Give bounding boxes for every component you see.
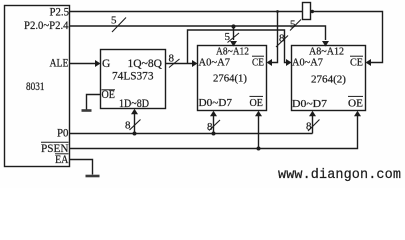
- slash bus width 8 at D0-D7 2764(2): [308, 120, 320, 132]
- svg-text:ALE: ALE: [50, 58, 69, 70]
- arrowhead into A8-A12 2764(1): [230, 41, 237, 47]
- slash bus width 5 at 2764(1): [228, 33, 240, 43]
- EPROM 2764(1) box: [198, 46, 267, 111]
- MCU 8031 box: [5, 6, 70, 167]
- wire A8 feed 2764(1): [233, 26, 235, 40]
- svg-text:OE: OE: [102, 89, 116, 101]
- overline EA: [55, 153, 69, 155]
- wire P0 to D0-D7 2764(1): [213, 116, 215, 134]
- svg-text:OE: OE: [348, 99, 363, 110]
- wire P2.5: [70, 11, 303, 13]
- wire inverter output to CE2: [314, 12, 383, 63]
- inverter G1 box: [303, 3, 311, 20]
- svg-text:8: 8: [207, 121, 213, 133]
- wire A0-A7 riser to 2764(2): [188, 30, 287, 64]
- svg-text:8: 8: [125, 120, 131, 132]
- wire ALE to G: [70, 63, 96, 65]
- slash bus width 8 on riser: [276, 36, 288, 48]
- wire EA to ground: [70, 160, 93, 175]
- junction dot P2.5 to CE1: [276, 10, 279, 13]
- svg-text:2764(2): 2764(2): [311, 75, 347, 86]
- svg-text:A0~A7: A0~A7: [292, 58, 323, 69]
- arrowhead into CE1: [267, 59, 273, 66]
- overline CE 2764(1): [252, 55, 264, 57]
- latch 74LS373 box: [101, 50, 166, 109]
- svg-text:1Q~8Q: 1Q~8Q: [128, 58, 163, 70]
- svg-text:2764(1): 2764(1): [213, 74, 248, 85]
- wire P2.0-P2.4 address bus: [70, 26, 326, 40]
- overline OE 2764(2): [348, 95, 363, 97]
- junction dot P0 to D0-D7 2764(1): [212, 132, 216, 136]
- arrowhead into A0-A7 2764(1): [192, 60, 198, 67]
- wire P2.5 to CE1: [271, 12, 278, 63]
- wire OE feed 2764(1): [258, 116, 260, 149]
- svg-text:1D~8D: 1D~8D: [119, 98, 149, 110]
- wire 1Q-8Q to A0-A7: [166, 63, 193, 65]
- slash bus width 5 at 2764(2): [290, 20, 301, 31]
- arrowhead into A8-A12 2764(2): [322, 41, 329, 47]
- wire PSEN bus: [70, 116, 358, 149]
- EPROM 2764(2) box: [292, 46, 366, 111]
- svg-text:8031: 8031: [26, 81, 45, 93]
- inverter output bubble: [311, 10, 314, 13]
- svg-text:A8~A12: A8~A12: [216, 47, 249, 58]
- svg-text:P2.5: P2.5: [50, 7, 70, 19]
- junction dot P0 to 1D-8D: [133, 132, 137, 136]
- arrowhead into G: [95, 60, 101, 67]
- wire P0 to 1D-8D: [134, 114, 136, 134]
- svg-text:D0~D7: D0~D7: [199, 98, 233, 109]
- junction dot P2 bus to A8 2764(1): [231, 24, 235, 28]
- arrowhead into D0-D7 2764(2): [309, 111, 316, 117]
- svg-text:8: 8: [279, 33, 285, 45]
- arrowhead into D0-D7 2764(1): [210, 111, 217, 117]
- slash bus width 8 at 1D-8D: [130, 120, 141, 131]
- arrowhead into CE2: [366, 59, 372, 66]
- slash bus width 8 at 1Q-8Q: [169, 59, 180, 68]
- wire P0 data bus: [70, 133, 313, 135]
- ground bar for 373 OE: [82, 109, 92, 112]
- overline OE 373: [102, 89, 116, 91]
- svg-text:5: 5: [225, 31, 231, 43]
- svg-text:5: 5: [111, 15, 117, 27]
- svg-text:P0: P0: [57, 128, 69, 140]
- svg-text:8: 8: [169, 53, 175, 65]
- overline CE 2764(2): [350, 55, 363, 57]
- svg-text:74LS373: 74LS373: [112, 71, 154, 83]
- svg-text:P2.0~P2.4: P2.0~P2.4: [24, 20, 69, 32]
- overline OE 2764(1): [250, 95, 264, 97]
- slash bus width 5 on P2 bus: [112, 18, 126, 33]
- svg-text:5: 5: [290, 19, 296, 31]
- arrowhead into OE 2764(1): [255, 111, 262, 117]
- overline PSEN: [41, 141, 69, 143]
- svg-text:G: G: [102, 58, 110, 70]
- wire 373 OE to ground: [87, 95, 101, 110]
- arrowhead into 1D-8D: [131, 109, 138, 115]
- slash bus width 8 at D0-D7 2764(1): [209, 120, 220, 131]
- svg-text:A8~A12: A8~A12: [309, 47, 344, 58]
- svg-text:8: 8: [306, 121, 312, 133]
- svg-text:CE: CE: [252, 58, 264, 69]
- ground bar for EA: [86, 175, 100, 178]
- svg-text:D0~D7: D0~D7: [292, 99, 327, 110]
- svg-text:CE: CE: [350, 58, 363, 69]
- svg-text:A0~A7: A0~A7: [199, 58, 231, 69]
- junction dot PSEN to OE 2764(1): [257, 147, 261, 151]
- arrowhead into A0-A7 2764(2): [286, 59, 292, 66]
- svg-text:EA: EA: [55, 154, 69, 166]
- wire P0 to D0-D7 2764(2): [312, 116, 314, 134]
- svg-text:www.diangon.com: www.diangon.com: [278, 168, 401, 183]
- svg-text:OE: OE: [250, 98, 264, 109]
- arrowhead into OE 2764(2): [354, 111, 361, 117]
